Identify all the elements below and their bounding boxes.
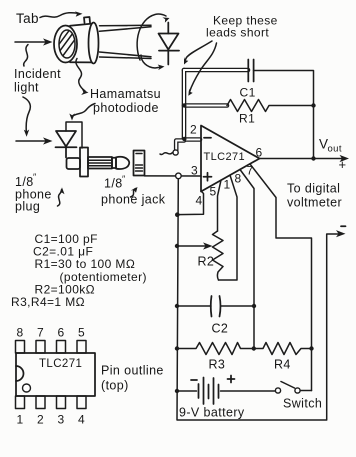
svg-text:+: + [339, 157, 347, 172]
svg-text:Hamamatsu: Hamamatsu [90, 87, 161, 101]
svg-text:TLC271: TLC271 [39, 358, 82, 370]
svg-text:photodiode: photodiode [93, 101, 159, 115]
svg-text:plug: plug [15, 200, 40, 214]
svg-text:2: 2 [37, 413, 44, 427]
svg-text:R3: R3 [209, 358, 226, 372]
svg-text:3: 3 [58, 413, 65, 427]
svg-text:4: 4 [196, 194, 203, 208]
svg-text:″: ″ [122, 174, 126, 184]
svg-text:5: 5 [78, 326, 85, 340]
svg-text:R4: R4 [274, 358, 291, 372]
svg-text:leads short: leads short [206, 26, 269, 40]
svg-text:4: 4 [78, 413, 85, 427]
svg-text:8: 8 [235, 172, 242, 186]
svg-text:2: 2 [190, 123, 197, 137]
svg-text:Switch: Switch [283, 397, 322, 411]
svg-text:C2: C2 [212, 322, 229, 336]
svg-text:voltmeter: voltmeter [287, 196, 342, 210]
svg-text:7: 7 [247, 164, 254, 178]
svg-text:1: 1 [224, 178, 231, 192]
svg-text:9-V battery: 9-V battery [179, 406, 245, 420]
svg-text:1: 1 [17, 413, 24, 427]
svg-text:″: ″ [33, 172, 37, 182]
svg-text:5: 5 [210, 185, 217, 199]
svg-text:3: 3 [191, 164, 198, 178]
svg-text:6: 6 [58, 326, 65, 340]
svg-text:C1: C1 [240, 86, 256, 100]
svg-text:R1=30 to 100 MΩ: R1=30 to 100 MΩ [35, 257, 136, 271]
svg-text:7: 7 [37, 326, 44, 340]
svg-text:R2: R2 [198, 255, 215, 269]
svg-text:Tab: Tab [16, 11, 39, 26]
svg-text:out: out [328, 144, 342, 155]
svg-text:R1: R1 [239, 112, 255, 126]
svg-text:light: light [14, 81, 39, 95]
svg-text:Incident: Incident [14, 67, 61, 81]
svg-text:phone jack: phone jack [101, 193, 166, 207]
svg-text:1/8: 1/8 [104, 177, 123, 191]
svg-text:8: 8 [17, 326, 24, 340]
svg-text:Pin outline: Pin outline [101, 364, 164, 378]
svg-text:R3,R4=1 MΩ: R3,R4=1 MΩ [11, 295, 85, 309]
svg-text:(top): (top) [101, 379, 129, 393]
svg-text:6: 6 [256, 146, 263, 160]
svg-text:To digital: To digital [287, 182, 340, 196]
svg-text:TLC271: TLC271 [204, 151, 246, 163]
